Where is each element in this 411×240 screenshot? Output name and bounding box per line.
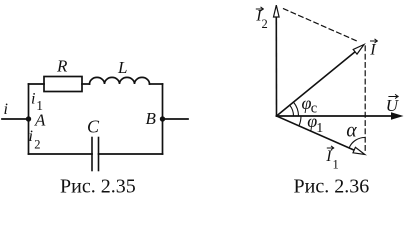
svg-text:1: 1 <box>333 157 339 171</box>
svg-text:i: i <box>29 128 33 145</box>
svg-text:Рис. 2.36: Рис. 2.36 <box>294 175 370 197</box>
wire: resistor to inductor <box>82 83 90 85</box>
resistor R <box>44 77 82 92</box>
svg-text:I: I <box>325 148 332 165</box>
wire: left input lead into node A <box>2 118 29 120</box>
svg-text:Рис. 2.35: Рис. 2.35 <box>60 175 136 197</box>
angle arc phi_c inner <box>290 105 294 116</box>
svg-text:1: 1 <box>316 121 323 136</box>
svg-text:B: B <box>146 109 157 128</box>
capacitor C plate right <box>98 138 100 171</box>
dashed vertical construction line through I and I1 tips <box>364 46 366 152</box>
wire: top segment from rail to resistor <box>29 83 45 85</box>
vector I arrowhead <box>353 45 364 55</box>
vector I2 shaft <box>275 17 277 116</box>
wire: right vertical rail <box>162 84 164 154</box>
angle arc alpha at I1 tip <box>349 138 365 148</box>
inductor L <box>90 77 150 84</box>
node A junction dot <box>26 116 31 121</box>
wire: bottom segment left of capacitor <box>29 153 93 155</box>
capacitor C plate left <box>91 138 93 171</box>
node B junction dot <box>160 116 165 121</box>
vector I1 shaft <box>277 116 355 150</box>
svg-text:R: R <box>56 57 68 76</box>
vector I shaft <box>277 52 356 116</box>
wire: left vertical rail <box>28 84 30 154</box>
angle arc phi_1 <box>299 116 301 126</box>
vector U shaft <box>277 115 393 117</box>
svg-text:C: C <box>87 117 100 137</box>
svg-text:I: I <box>369 41 376 58</box>
dashed construction line from I2 tip to I tip <box>284 9 359 42</box>
vector I2 arrowhead <box>274 5 280 17</box>
svg-text:L: L <box>117 58 127 77</box>
svg-text:A: A <box>34 111 46 130</box>
wire: bottom segment right of capacitor <box>99 153 163 155</box>
vector U filled arrowhead <box>391 112 404 120</box>
wire: right output lead from node B <box>163 118 189 120</box>
svg-text:U: U <box>386 96 400 115</box>
svg-text:2: 2 <box>262 17 268 31</box>
svg-text:i: i <box>4 101 8 118</box>
angle arc phi_c outer <box>294 102 299 116</box>
vector I1 arrowhead <box>353 147 365 154</box>
svg-text:α: α <box>346 121 357 142</box>
svg-text:2: 2 <box>34 138 40 152</box>
svg-text:i: i <box>31 91 35 108</box>
wire: inductor to right rail <box>150 83 163 85</box>
